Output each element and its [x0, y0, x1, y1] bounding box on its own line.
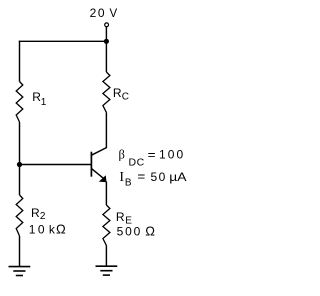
resistor RC — [103, 72, 110, 112]
value label 10 kOhm — [29, 221, 66, 236]
svg-text:=: = — [137, 169, 145, 184]
wire: collector corner to RC — [105, 112, 107, 148]
label R1 — [32, 90, 47, 108]
svg-text:β: β — [119, 147, 125, 161]
svg-text:1: 1 — [41, 97, 47, 108]
label I_B = 50 uA — [119, 169, 186, 189]
label RC — [113, 86, 129, 103]
svg-text:µA: µA — [169, 170, 186, 184]
svg-text:=: = — [148, 147, 156, 162]
svg-text:I: I — [119, 170, 124, 185]
label RE — [116, 210, 132, 227]
svg-text:DC: DC — [129, 157, 145, 169]
wire: R2 to ground — [19, 236, 21, 266]
supply terminal circle — [105, 23, 109, 27]
svg-text:R: R — [113, 86, 122, 100]
wire: emitter to RE — [105, 182, 107, 206]
label beta_DC = 100 — [119, 147, 186, 169]
svg-text:V: V — [110, 8, 118, 20]
resistor R2 — [16, 195, 23, 236]
transistor Q1 emitter lead with arrow — [92, 169, 107, 183]
wire: base node down to R2 — [19, 165, 21, 196]
transistor Q1 collector lead — [92, 148, 107, 156]
wire: RE to ground — [105, 245, 107, 266]
junction dot base node — [17, 162, 22, 167]
wire: terminal to top node — [105, 27, 107, 41]
value label 500 Ohm — [117, 224, 156, 239]
wire: top node to RC — [105, 41, 107, 72]
junction dot top node — [104, 39, 109, 44]
label R2 — [31, 206, 46, 222]
transistor Q1 base bar — [90, 152, 92, 177]
svg-text:2: 2 — [40, 211, 46, 222]
ground left — [9, 267, 31, 276]
wire: top horizontal — [19, 40, 107, 42]
resistor R1 — [16, 82, 23, 123]
svg-text:R: R — [116, 210, 125, 224]
svg-text:B: B — [125, 178, 132, 189]
svg-text:C: C — [122, 92, 129, 103]
wire: R1 to base node — [19, 122, 21, 165]
svg-text:R: R — [31, 206, 40, 220]
ground right — [96, 266, 118, 275]
svg-text:20: 20 — [90, 6, 107, 20]
svg-text:10: 10 — [29, 222, 47, 236]
wire: left rail down to R1 — [19, 41, 21, 82]
svg-text:500: 500 — [117, 225, 143, 239]
svg-text:Ω: Ω — [56, 221, 66, 236]
svg-text:Ω: Ω — [145, 224, 155, 239]
wire: base horizontal — [20, 164, 92, 166]
svg-text:k: k — [49, 222, 56, 236]
svg-text:100: 100 — [159, 147, 185, 161]
svg-text:50: 50 — [150, 170, 166, 184]
resistor RE — [103, 205, 110, 245]
